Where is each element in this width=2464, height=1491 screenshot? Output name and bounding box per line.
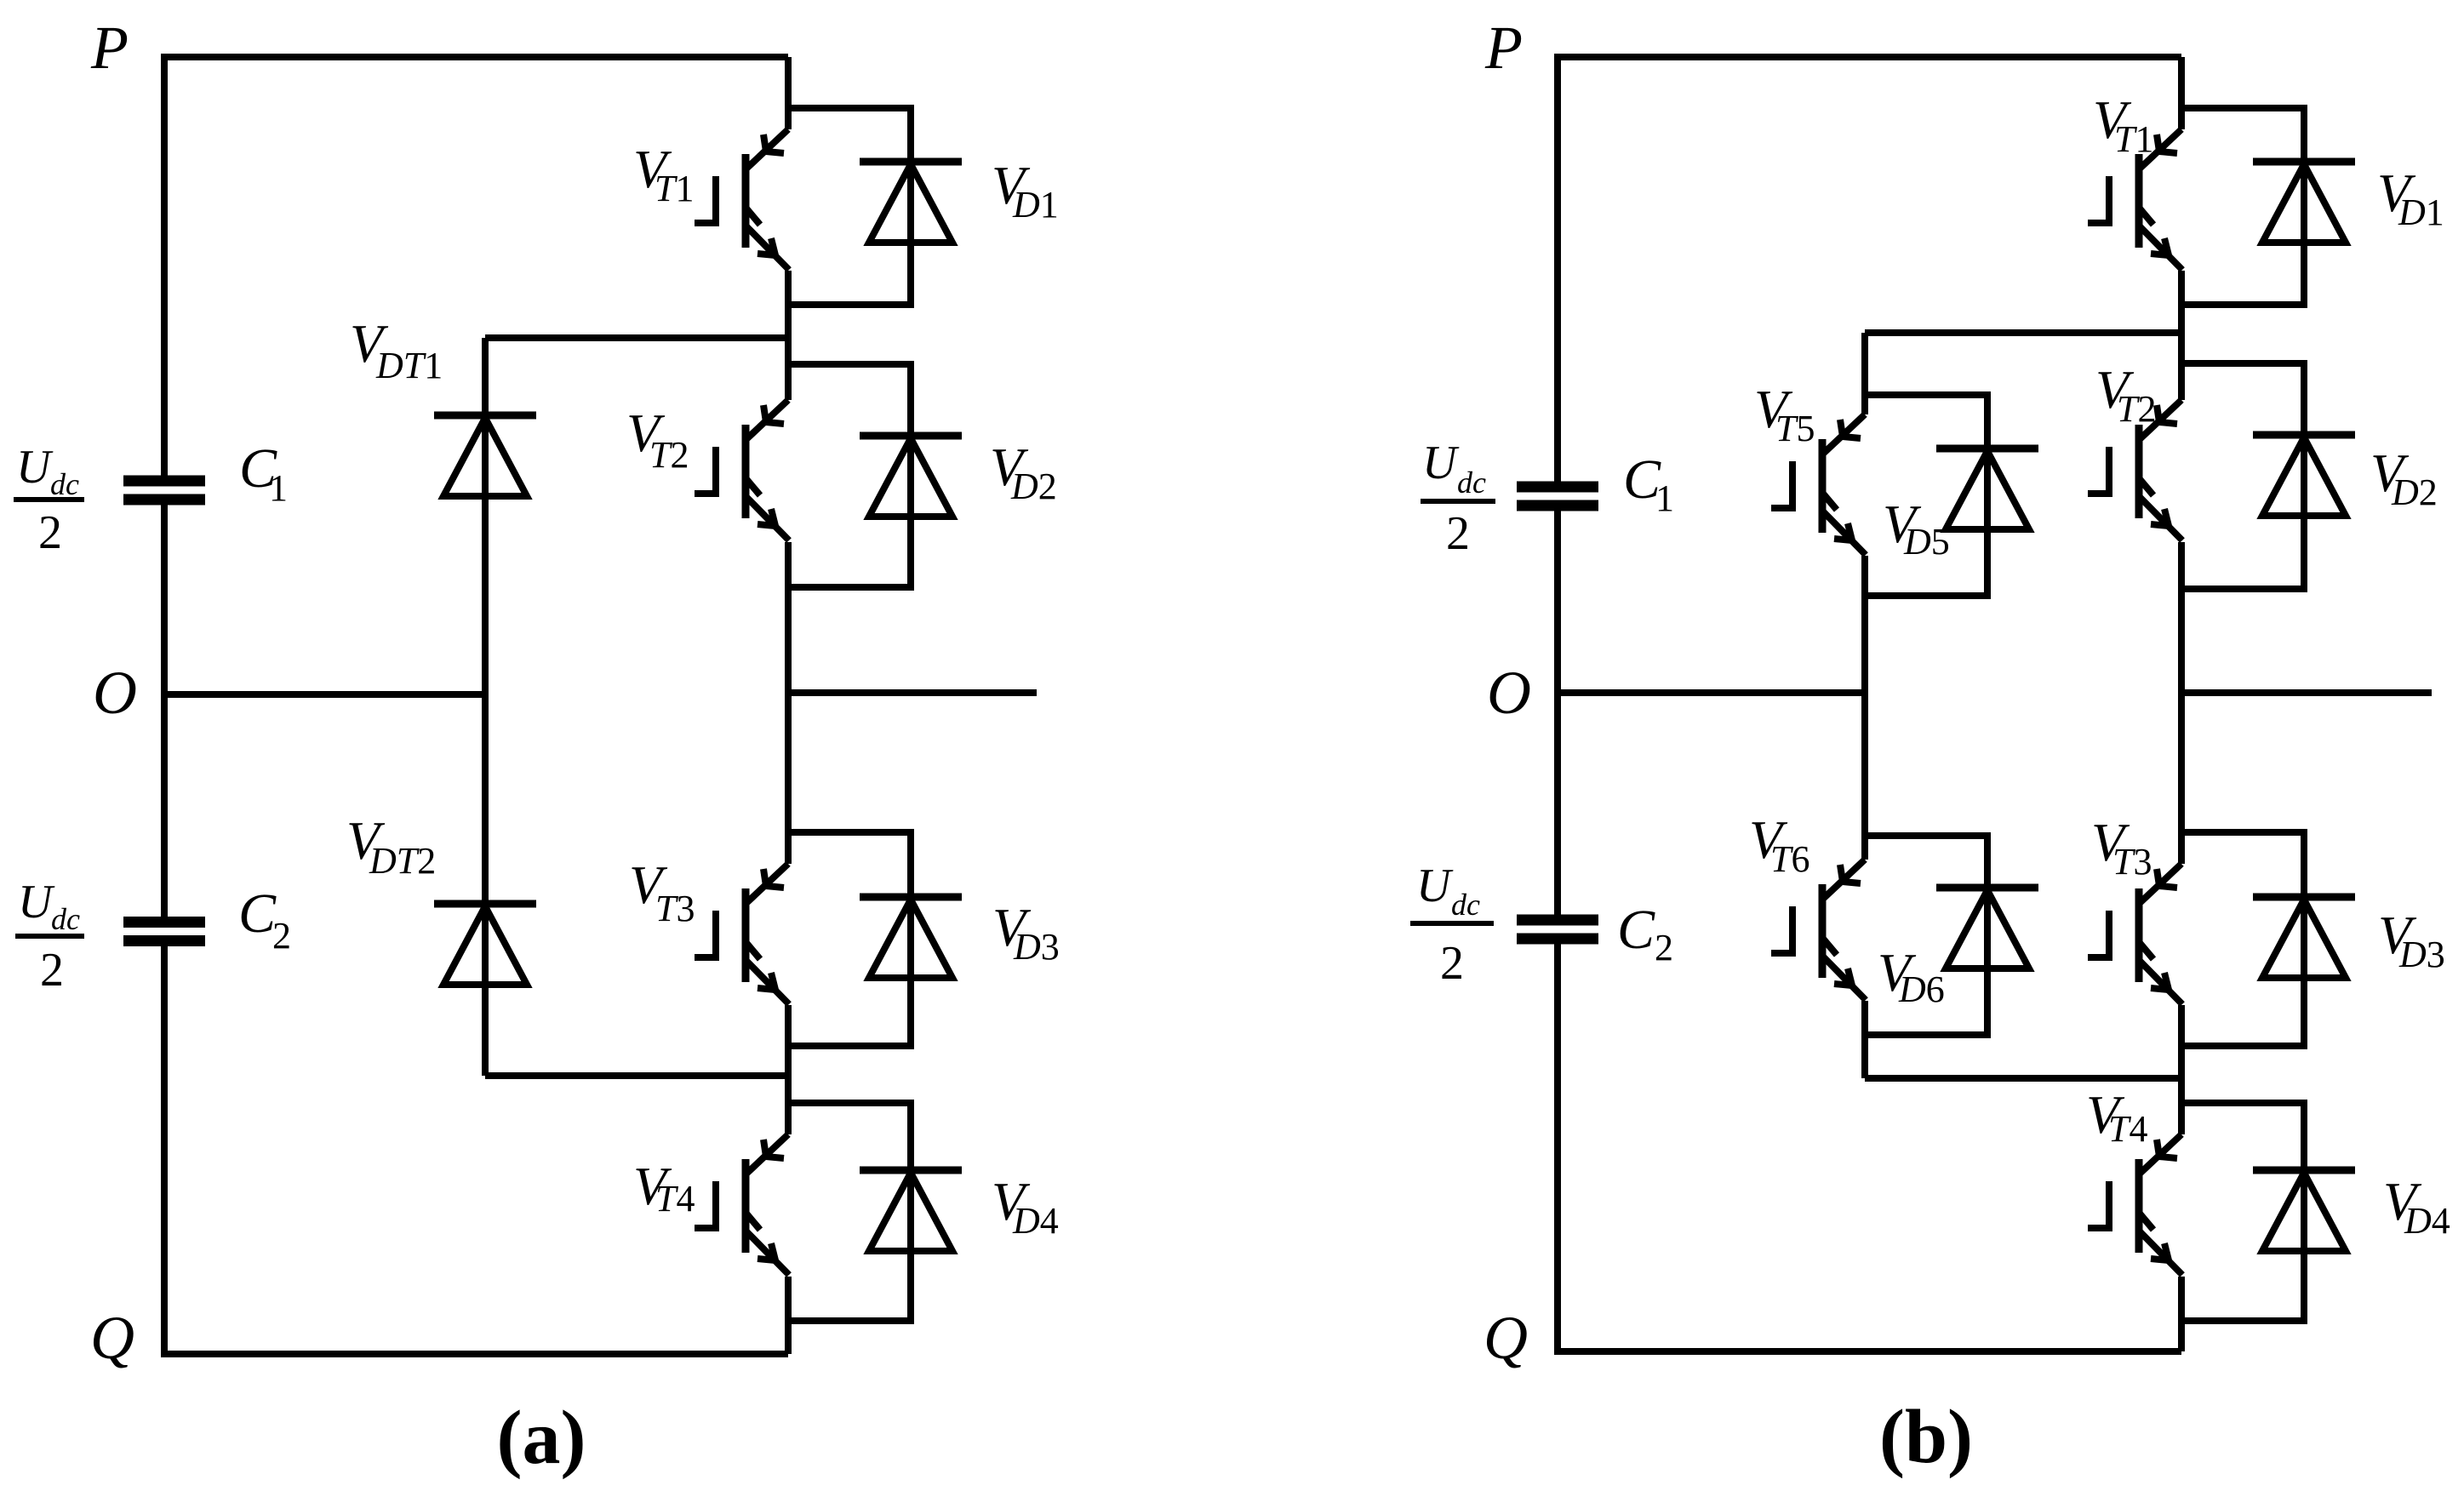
svg-text:(a): (a) <box>497 1396 586 1480</box>
svg-text:U: U <box>1422 437 1460 489</box>
svg-text:T2: T2 <box>2117 388 2156 430</box>
wire clamp top junction (b) <box>1865 329 2181 336</box>
svg-text:U: U <box>16 441 54 494</box>
svg-text:D5: D5 <box>1903 521 1950 563</box>
svg-text:C: C <box>1617 899 1655 961</box>
svg-text:DT2: DT2 <box>369 840 436 882</box>
svg-text:U: U <box>1416 860 1454 912</box>
svg-text:Q: Q <box>90 1304 134 1372</box>
svg-text:dc: dc <box>50 467 79 501</box>
wire VT4-Q (b) <box>2178 1277 2185 1351</box>
wire VT6 emitter (b) <box>1861 1001 1868 1078</box>
svg-text:D3: D3 <box>1013 926 1060 968</box>
svg-text:2: 2 <box>38 506 62 559</box>
wire VT4-Q (a) <box>785 1277 792 1354</box>
capacitor C1 (b) <box>1517 482 1598 511</box>
wire VT5 collector (b) <box>1861 333 1868 414</box>
svg-text:1: 1 <box>1655 477 1674 519</box>
clamp diode VD6 (b) <box>1936 888 2038 968</box>
transistor VT2 <box>695 400 789 540</box>
wire VD3 branch (b) <box>2181 832 2304 1046</box>
wire output stub (b) <box>2181 689 2432 696</box>
transistor VT1 <box>695 129 789 270</box>
svg-text:dc: dc <box>51 902 80 936</box>
transistor VT3 (b) <box>2088 864 2182 1004</box>
wire VD5 branch (b) <box>1865 395 1987 596</box>
svg-text:D6: D6 <box>1898 968 1945 1010</box>
svg-text:T4: T4 <box>655 1178 695 1220</box>
svg-text:2: 2 <box>1446 507 1470 560</box>
svg-text:(b): (b) <box>1879 1395 1973 1479</box>
svg-text:D2: D2 <box>1010 466 1057 507</box>
svg-text:T3: T3 <box>2112 841 2152 883</box>
wire VT1-VT2 (a) <box>785 271 792 400</box>
svg-text:T4: T4 <box>2108 1108 2147 1150</box>
wire VT1-VT2 (b) <box>2178 271 2185 400</box>
svg-text:P: P <box>1484 14 1523 82</box>
svg-text:T1: T1 <box>655 168 694 209</box>
wire left rail mid (b) <box>1554 511 1561 915</box>
wire VT3-VT4 (b) <box>2178 1005 2185 1134</box>
wire left rail mid (a) <box>161 506 168 917</box>
svg-text:T3: T3 <box>655 888 695 929</box>
svg-text:dc: dc <box>1451 888 1480 922</box>
wire clamp bottom junction (b) <box>1865 1075 2181 1082</box>
transistor VT3 <box>695 864 789 1004</box>
capacitor C2 (b) <box>1517 915 1598 945</box>
svg-text:dc: dc <box>1457 466 1486 500</box>
svg-text:2: 2 <box>1655 927 1673 968</box>
wire VD4 branch (a) <box>788 1103 911 1321</box>
wire VD2 branch (b) <box>2181 363 2304 589</box>
clamp transistor VT6 (b) <box>1771 860 1866 1000</box>
wire Q rail bottom (a) <box>164 946 788 1354</box>
wire output stub (a) <box>788 689 1037 696</box>
svg-text:T6: T6 <box>1770 838 1809 880</box>
wire VD2 branch (a) <box>788 364 911 587</box>
svg-text:D1: D1 <box>2398 191 2444 233</box>
wire clamp bottom junction (a) <box>485 1072 788 1079</box>
svg-text:D3: D3 <box>2398 934 2445 975</box>
wire VT1 collector (a) <box>785 57 792 129</box>
diode VD2 (b) <box>2253 435 2355 516</box>
svg-text:P: P <box>90 14 129 82</box>
wire clamp rail (a) <box>482 338 489 1076</box>
svg-text:U: U <box>18 876 55 928</box>
wire VD6 branch (b) <box>1865 836 1987 1035</box>
diode VD4 <box>860 1170 962 1251</box>
diode VD2 <box>860 436 962 517</box>
diode VD3 <box>860 897 962 978</box>
wire Q rail bottom (b) <box>1558 945 2181 1352</box>
diode VD1 <box>860 162 962 243</box>
clamp diode VDT2 <box>434 904 536 985</box>
wire VD1 branch (a) <box>788 108 911 305</box>
clamp diode VDT1 <box>434 415 536 496</box>
svg-text:2: 2 <box>1440 937 1464 990</box>
clamp transistor VT5 (b) <box>1771 414 1866 555</box>
transistor VT1 (b) <box>2088 129 2182 270</box>
clamp diode VD5 (b) <box>1936 448 2038 529</box>
wire VT2-VT3 (a) <box>785 542 792 864</box>
wire P rail top (b) <box>1558 57 2181 482</box>
wire clamp top junction (a) <box>485 334 788 341</box>
svg-text:T2: T2 <box>649 434 689 476</box>
diode VD4 (b) <box>2253 1170 2355 1251</box>
svg-text:2: 2 <box>40 944 64 997</box>
svg-text:2: 2 <box>272 915 291 957</box>
svg-text:C: C <box>238 883 277 945</box>
svg-text:O: O <box>1487 659 1531 727</box>
svg-text:Q: Q <box>1484 1304 1528 1372</box>
wire VD4 branch (b) <box>2181 1103 2304 1321</box>
transistor VT2 (b) <box>2088 400 2182 540</box>
svg-text:DT1: DT1 <box>375 345 443 386</box>
transistor VT4 <box>695 1134 789 1275</box>
svg-text:T5: T5 <box>1775 408 1815 449</box>
svg-text:O: O <box>93 659 137 727</box>
wire VD1 branch (b) <box>2181 108 2304 305</box>
svg-text:D4: D4 <box>2404 1200 2450 1242</box>
diode VD1 (b) <box>2253 162 2355 243</box>
wire P rail top (a) <box>164 57 788 476</box>
wire VT1 collector (b) <box>2178 57 2185 129</box>
capacitor C2 <box>123 917 205 946</box>
wire O line (a) <box>164 691 485 698</box>
svg-text:D1: D1 <box>1012 184 1059 226</box>
transistor VT4 (b) <box>2088 1134 2182 1275</box>
wire VT3-VT4 (a) <box>785 1005 792 1134</box>
svg-text:1: 1 <box>269 467 288 509</box>
svg-text:D2: D2 <box>2391 471 2438 513</box>
capacitor C1 <box>123 476 205 506</box>
wire VD3 branch (a) <box>788 832 911 1046</box>
svg-text:T1: T1 <box>2114 118 2153 160</box>
wire VT2-VT3 (b) <box>2178 542 2185 864</box>
diode VD3 (b) <box>2253 897 2355 978</box>
wire VT5-VT6 (b) <box>1861 556 1868 860</box>
svg-text:D4: D4 <box>1012 1200 1059 1242</box>
wire O line (b) <box>1558 689 1865 696</box>
